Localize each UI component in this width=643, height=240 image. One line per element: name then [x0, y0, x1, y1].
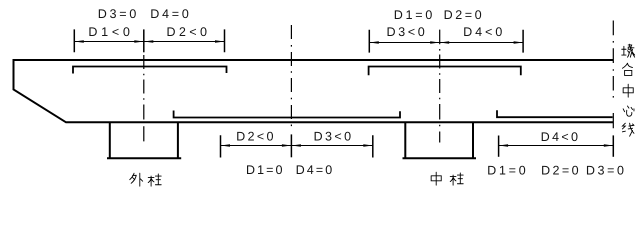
arrows bottom-left dims [221, 144, 373, 147]
vertical label 中 [623, 84, 633, 97]
centerline midspan [290, 25, 292, 157]
dimension group bottom-right [499, 136, 614, 157]
dimension group bottom-left [221, 135, 373, 157]
label D4=0 bottom-left [297, 165, 332, 174]
centerline pier axis right [612, 21, 614, 157]
arrows top-left dims [74, 40, 224, 43]
label D1&lt;0 top-left [89, 27, 129, 36]
label D1=0 top-right [395, 10, 432, 19]
label D3&lt;0 bottom-left [315, 132, 351, 141]
label D1=0 bottom-left [247, 165, 282, 174]
middle column [403, 123, 477, 159]
label D4=0 top-left [151, 9, 188, 18]
label D4&lt;0 top-right [464, 27, 502, 36]
label D2&lt;0 top-left [168, 27, 207, 36]
arrows top-right dims [369, 41, 523, 44]
vertical label 墩 [622, 44, 635, 57]
dimension group top-left [74, 29, 224, 52]
label 外 (outer) [130, 173, 143, 186]
vertical label 线 [622, 123, 634, 136]
label 柱 (column) left [148, 174, 161, 186]
dimension group top-right [369, 30, 523, 53]
centerline middle column [439, 30, 441, 143]
bearing ledge top-left [73, 67, 227, 74]
label D4&lt;0 bottom-right [542, 132, 578, 141]
outer column [107, 123, 181, 159]
vertical label 台 [622, 63, 632, 75]
label D1=0 bottom-right [488, 166, 525, 175]
label D2&lt;0 bottom-left [237, 132, 273, 141]
CJK glyphs drawn as vector strokes (grading env has no CJK font) [130, 44, 635, 186]
label D3=0 top-left [99, 9, 136, 18]
label D3&lt;0 top-right [388, 27, 425, 36]
vertical label 心 [623, 106, 634, 116]
label 中 (middle col label) [431, 172, 441, 185]
beam outline [14, 60, 614, 122]
bearing ledge bottom-left [174, 111, 400, 118]
arrows bottom-right dims [499, 144, 614, 147]
bearing ledge top-right [369, 67, 521, 76]
label 柱 (column) middle [450, 173, 463, 185]
bearing ledge bottom-right [497, 110, 613, 117]
label D3=0 bottom-right [587, 166, 624, 175]
label D2=0 top-right [445, 10, 482, 19]
label D2=0 bottom-right [542, 166, 578, 175]
centerline outer column [143, 29, 145, 141]
